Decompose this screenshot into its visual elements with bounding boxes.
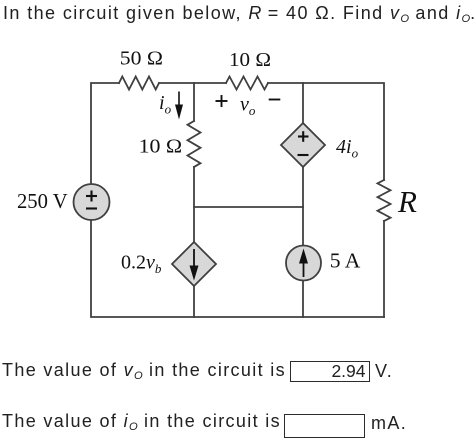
svg-text:50 Ω: 50 Ω: [120, 48, 163, 70]
svg-text:4io: 4io: [336, 136, 359, 161]
wire middle horizontal: [194, 206, 303, 208]
label minus (vo polarity): [269, 99, 281, 101]
resistor R: [378, 180, 391, 221]
svg-text:R: R: [397, 184, 417, 219]
wire top-right segment: [268, 83, 384, 180]
label plus (vo polarity): [216, 95, 228, 107]
wire right-bottom segment: [383, 221, 385, 317]
current source 5A: [286, 246, 321, 281]
wire branch x303 center: [302, 167, 304, 246]
wire middle branch bottom: [193, 286, 195, 317]
dependent source 4io (diamond): [281, 123, 325, 167]
wire left-bottom segment: [91, 220, 384, 317]
svg-text:10 Ω: 10 Ω: [139, 136, 183, 158]
arrow io: [175, 92, 183, 120]
answer line 2: [2, 411, 281, 433]
wire top-left segment: [91, 83, 119, 184]
answer box 2: [284, 414, 365, 438]
wire branch x303 bottom: [302, 280, 304, 317]
wire middle branch center: [193, 167, 195, 242]
unit mA: [371, 413, 407, 434]
resistor 10ohm top: [226, 77, 268, 90]
svg-text:0.2vb: 0.2vb: [121, 252, 162, 277]
svg-text:250 V: 250 V: [17, 191, 68, 213]
unit V: [375, 361, 393, 382]
svg-text:io: io: [159, 92, 172, 117]
wire branch x303 top: [302, 83, 304, 123]
svg-text:10 Ω: 10 Ω: [229, 49, 271, 71]
svg-text:vo: vo: [240, 94, 256, 119]
resistor 10ohm vertical: [188, 121, 201, 167]
svg-text:5 A: 5 A: [330, 251, 361, 273]
wire middle branch top: [193, 83, 195, 121]
wire top between resistors: [159, 82, 226, 84]
answer box 1: [290, 361, 370, 382]
answer line 1: [2, 360, 286, 382]
dependent current source 0.2vb (diamond): [172, 242, 216, 286]
resistor 50ohm: [119, 77, 159, 90]
voltage source 250V: [74, 184, 110, 220]
title: [3, 3, 474, 25]
